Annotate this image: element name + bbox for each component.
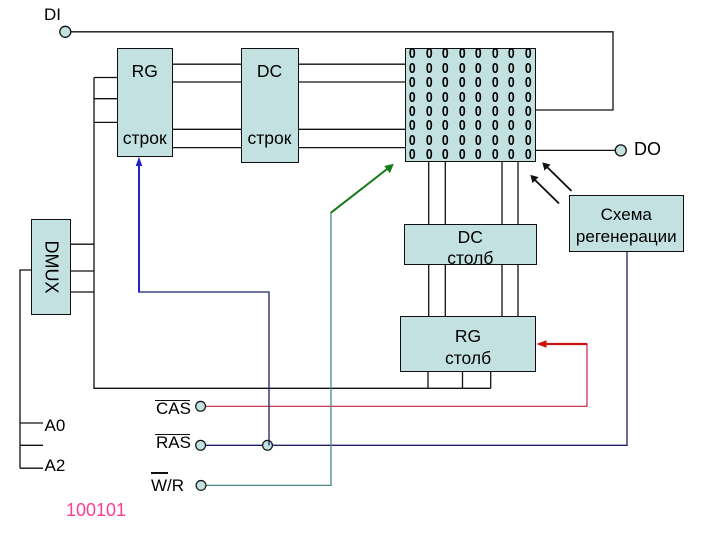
terminal CAS bbox=[196, 401, 206, 411]
label A0 bbox=[45, 416, 66, 436]
wire array to DC столб bit line 3 bbox=[501, 161, 503, 224]
wire stub to RG строк pin 3 bbox=[94, 121, 117, 123]
wire DC столб to RG столб line 3 bbox=[501, 264, 503, 316]
label W/R with overline over W bbox=[151, 476, 184, 496]
block DC строк bbox=[241, 48, 299, 163]
label slide number 100101 bbox=[66, 500, 126, 521]
wire stub up to RG столб pin 2 bbox=[462, 372, 464, 389]
wire address bus: vertical trunk left of RG строк down to RG столб bbox=[94, 78, 491, 389]
wire tick A1 bbox=[20, 444, 43, 446]
label CAS with overline bbox=[156, 399, 191, 419]
wire CAS (red) to RG столб bbox=[206, 344, 587, 406]
block DC столб bbox=[404, 224, 537, 265]
wire W/R (teal) bbox=[207, 213, 332, 486]
arrow green W/R to array corner bbox=[331, 164, 394, 213]
wire stub to RG строк pin 1 bbox=[94, 77, 117, 79]
terminal DO bbox=[615, 145, 626, 156]
label RAS with overline bbox=[156, 433, 191, 453]
arrow CAS into RG столб (red) bbox=[536, 340, 587, 348]
array zeros grid bbox=[404, 47, 536, 163]
wire DO: from array right side to DO terminal bbox=[536, 149, 616, 151]
wire DI: from DI terminal right and down into array right side bbox=[71, 32, 614, 110]
wire DC столб to RG столб line 1 bbox=[428, 264, 430, 316]
label DI bbox=[44, 5, 61, 25]
wire address input: DMUX left to A0..A2 ticks bbox=[20, 270, 31, 468]
wire DC строк to array line 1 bbox=[298, 63, 405, 65]
wire DC строк to array line 3 bbox=[298, 128, 405, 130]
wire stub from DMUX out 3 bbox=[71, 291, 95, 293]
node junction RAS / row-address latch bbox=[263, 440, 273, 450]
wire stub up to RG столб pin 1 bbox=[427, 372, 429, 389]
wire array to DC столб bit line 1 bbox=[428, 161, 430, 224]
wire array to DC столб bit line 2 bbox=[444, 161, 446, 224]
wire tick A2 bbox=[20, 467, 43, 469]
wire DC столб to RG столб line 2 bbox=[444, 264, 446, 316]
block memory array of zeros bbox=[405, 48, 536, 162]
wire DC строк to array line 2 bbox=[298, 81, 405, 83]
arrow black regeneration 1 bbox=[542, 162, 571, 191]
block Схема регенерации bbox=[569, 195, 685, 253]
arrow black regeneration 2 bbox=[530, 175, 559, 204]
arrow blue into RG строк bottom bbox=[136, 157, 143, 293]
wire stub from DMUX out 2 bbox=[71, 270, 95, 272]
label DO bbox=[634, 139, 661, 160]
wire DC столб to RG столб line 4 bbox=[517, 264, 519, 316]
wire RAS (navy) to Схема регенерации bbox=[206, 252, 627, 445]
block DMUX bbox=[31, 219, 71, 315]
wire array to DC столб bit line 4 bbox=[517, 161, 519, 224]
label A2 bbox=[45, 456, 66, 476]
wire tick A0 bbox=[20, 422, 43, 424]
wire RG строк to DC строк line 2 bbox=[173, 81, 242, 83]
wire stub up to RG столб pin 3 bbox=[490, 372, 492, 389]
block RG столб bbox=[400, 316, 537, 373]
terminal W/R bbox=[196, 481, 206, 491]
wire RG строк to DC строк line 3 bbox=[173, 128, 242, 130]
block RG строк bbox=[117, 48, 174, 157]
terminal DI bbox=[60, 26, 71, 37]
wire stub to RG строк pin 2 bbox=[94, 98, 117, 100]
wire RG строк to DC строк line 1 bbox=[173, 63, 242, 65]
terminal RAS bbox=[196, 440, 206, 450]
wire navy link from RAS junction up and left to blue arrow bbox=[140, 292, 269, 445]
wire RG строк to DC строк line 4 bbox=[173, 147, 242, 149]
wire stub from DMUX out 1 bbox=[71, 243, 95, 245]
wire DC строк to array line 4 bbox=[298, 147, 405, 149]
